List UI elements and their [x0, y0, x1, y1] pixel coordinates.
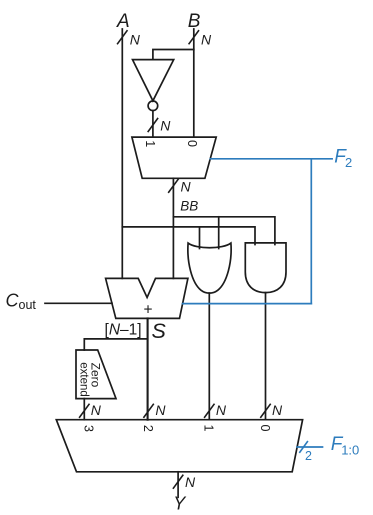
- svg-text:N: N: [181, 178, 192, 194]
- wire inverter output to mux: [152, 111, 154, 138]
- svg-text:N: N: [201, 32, 212, 48]
- svg-text:B: B: [188, 11, 201, 32]
- bus slash 2 on F1:0: [299, 441, 312, 463]
- wire mux output BB down to adder: [172, 178, 174, 278]
- wire AND output to mux input 0: [265, 293, 267, 420]
- wire B vertical bus: [193, 29, 195, 137]
- bus slash N on zero extend output: [79, 402, 102, 418]
- wire zero extend output to mux input 3: [83, 399, 85, 420]
- svg-text:N: N: [160, 118, 171, 134]
- svg-text:N: N: [130, 32, 141, 48]
- bus slash N on B: [189, 30, 212, 47]
- wire A branch to gates: [122, 227, 255, 245]
- svg-text:N: N: [216, 402, 227, 418]
- OR gate G1: [188, 243, 231, 293]
- wire BB branch to gates: [173, 217, 275, 245]
- mux M1 (2:1, B / notB): [132, 137, 216, 178]
- wire OR gate left input stub: [199, 227, 201, 249]
- svg-text:+: +: [143, 302, 152, 319]
- bus slash N on A: [117, 30, 141, 47]
- wire OR output to mux input 1: [208, 293, 210, 420]
- svg-text:[N–1]: [N–1]: [105, 322, 142, 339]
- svg-text:2: 2: [345, 155, 352, 170]
- svg-text:N: N: [272, 402, 283, 418]
- svg-text:A: A: [116, 11, 130, 32]
- svg-text:2: 2: [305, 449, 312, 463]
- svg-text:C: C: [6, 291, 20, 311]
- wire A vertical bus: [121, 29, 123, 278]
- zero extend block text (rotated): [78, 362, 103, 397]
- bus slash N on AND output: [260, 402, 283, 418]
- svg-text:1: 1: [202, 425, 216, 432]
- wire OR gate right input stub: [218, 217, 220, 249]
- label F1:0: [331, 434, 359, 458]
- svg-text:1: 1: [143, 140, 157, 147]
- svg-text:out: out: [19, 298, 37, 312]
- svg-text:extend: extend: [78, 362, 90, 397]
- svg-text:S: S: [152, 319, 167, 343]
- label Cout: [6, 291, 37, 312]
- svg-text:BB: BB: [180, 198, 198, 213]
- svg-text:Zero: Zero: [89, 363, 103, 388]
- svg-text:2: 2: [141, 425, 155, 432]
- wire B branch to inverter: [153, 50, 194, 60]
- svg-text:N: N: [155, 402, 166, 418]
- mux M2 (4:1 result mux): [56, 420, 302, 472]
- wire S output (adder sum): [147, 318, 149, 419]
- AND gate G2: [245, 243, 286, 293]
- zero extend block: [76, 350, 116, 399]
- bus slash N on inverter output: [148, 118, 172, 134]
- bus slash N on OR output: [204, 402, 227, 418]
- bus slash N on Y: [173, 474, 196, 490]
- wire F2 (blue net: mux select and adder carry-in): [183, 159, 333, 304]
- label F2: [334, 146, 352, 170]
- inverter (NOT gate) on B: [133, 60, 174, 111]
- wire branch S[N-1] to zero extend: [84, 339, 147, 350]
- svg-text:1:0: 1:0: [341, 443, 359, 458]
- adder U1: [106, 278, 188, 318]
- wire Cout: [45, 302, 112, 304]
- wire Y output: [177, 472, 179, 498]
- svg-text:0: 0: [258, 425, 272, 432]
- bus slash N on mux output: [168, 178, 191, 194]
- svg-text:3: 3: [82, 425, 96, 432]
- wire F1:0 (blue select of 4:1 mux): [297, 446, 323, 448]
- svg-text:0: 0: [185, 140, 199, 147]
- bus slash N on S: [143, 402, 166, 418]
- svg-text:N: N: [185, 474, 196, 490]
- svg-text:N: N: [91, 402, 102, 418]
- svg-text:Y: Y: [173, 494, 187, 514]
